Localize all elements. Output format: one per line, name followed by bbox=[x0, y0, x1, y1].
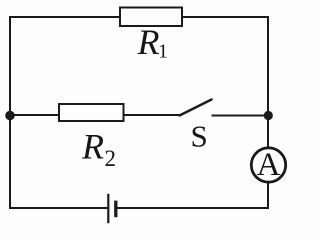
switch S blade bbox=[180, 100, 212, 116]
battery long plate bbox=[107, 194, 109, 223]
node left junction bbox=[5, 111, 15, 121]
svg-text:2: 2 bbox=[105, 146, 117, 171]
ammeter A bbox=[251, 147, 285, 183]
wire switch left lead bbox=[124, 114, 180, 116]
svg-text:S: S bbox=[191, 119, 208, 154]
svg-text:R: R bbox=[81, 127, 104, 167]
svg-text:A: A bbox=[257, 147, 281, 183]
wire right rail lower bbox=[267, 182, 269, 209]
svg-text:1: 1 bbox=[158, 41, 168, 63]
wire top-right segment bbox=[182, 16, 268, 18]
wire switch right lead bbox=[212, 115, 269, 117]
resistor R1 bbox=[120, 8, 182, 27]
battery short plate bbox=[114, 201, 117, 218]
wire bottom-left segment bbox=[9, 207, 108, 209]
node right junction bbox=[264, 111, 273, 120]
wire bottom-right segment bbox=[116, 207, 269, 209]
svg-text:R: R bbox=[137, 22, 160, 62]
wire top-left segment bbox=[10, 16, 120, 18]
wire right rail upper bbox=[267, 16, 269, 149]
wire middle-branch left lead bbox=[10, 114, 59, 116]
resistor R2 bbox=[59, 104, 124, 121]
wire left rail bbox=[9, 16, 11, 208]
